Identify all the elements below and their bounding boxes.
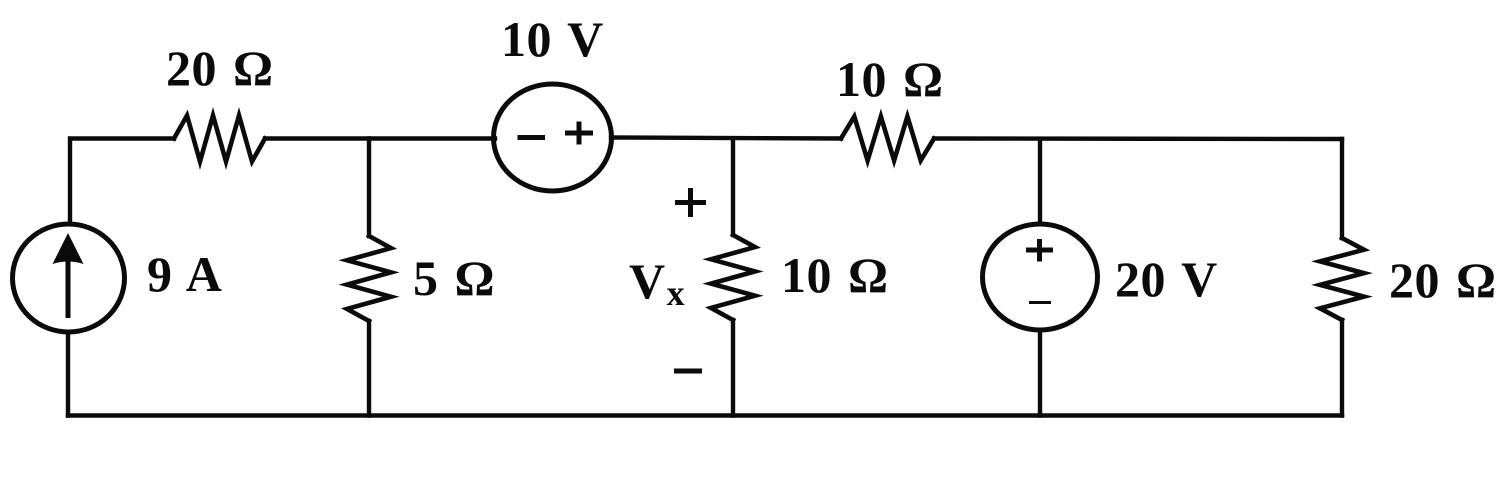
wire right branch lower [1340,320,1344,416]
plus sign inside V2 [1026,239,1053,262]
wire top middle (R1 to 10V source) [265,136,495,140]
svg-text:10 Ω: 10 Ω [781,247,889,303]
current source I1 circle [13,224,125,332]
wire Vx branch lower [731,320,735,416]
voltage source V2 20V circle [983,224,1098,330]
wire Vx branch upper [731,139,735,236]
svg-text:20 Ω: 20 Ω [1389,252,1497,308]
wire top right (R4 to right corner) [934,136,1342,141]
wire 5ohm branch upper [367,139,371,237]
resistor R4 10ohm (top right) [841,117,934,161]
wire bottom [68,413,1342,417]
svg-text:20 Ω: 20 Ω [166,40,274,96]
resistor R1 20ohm (top left) [174,116,265,162]
svg-text:10 Ω: 10 Ω [836,51,944,107]
minus sign inside V2 [1029,301,1051,304]
wire top-left horizontal (left corner to R1) [70,139,174,225]
wire top (10V source to R4) [611,138,841,139]
svg-text:9 A: 9 A [147,246,222,302]
wire 20V branch lower [1038,330,1042,416]
svg-text:20 V: 20 V [1115,251,1218,307]
svg-text:5 Ω: 5 Ω [413,250,495,306]
wire right branch upper [1340,139,1344,238]
voltage source V1 10V circle [494,84,612,191]
resistor R3 10ohm (Vx) [711,235,755,320]
plus sign above Vx [675,188,706,217]
wire 5ohm branch lower [367,321,371,416]
resistor R5 20ohm (right) [1320,238,1364,320]
svg-text:10 V: 10 V [501,11,604,67]
minus sign below Vx [674,369,702,374]
current source I1 arrow [53,233,84,318]
wire 20V branch upper [1038,139,1042,224]
plus sign inside V1 [565,122,593,145]
wire left branch lower [66,332,70,416]
minus sign inside V1 [518,135,546,140]
resistor R2 5ohm [347,236,391,321]
